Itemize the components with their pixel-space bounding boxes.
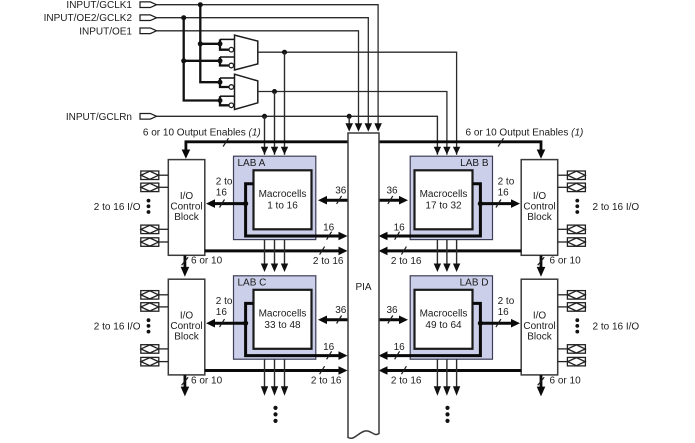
svg-text:2 to 16: 2 to 16 bbox=[391, 375, 422, 386]
mux MUX1 bbox=[235, 35, 258, 70]
arrowhead mux1 out into LAB A top bbox=[281, 147, 288, 155]
svg-text:1 to 16: 1 to 16 bbox=[267, 201, 298, 212]
slash on 36 right-bottom bbox=[388, 316, 393, 324]
svg-text:6 or 10: 6 or 10 bbox=[550, 375, 582, 386]
wire 6 or 10 arrow below top-right block bbox=[537, 255, 581, 276]
arrowhead GCLK2 into PIA top bbox=[365, 123, 373, 131]
macrocell box 49 to 64 bbox=[415, 290, 473, 349]
node mux1 out branch bbox=[282, 50, 287, 55]
slash on 2 to 16 rail right-bottom bbox=[401, 366, 406, 374]
io cell right-top 1 bbox=[558, 171, 586, 180]
slash on 16 right-top bbox=[395, 232, 400, 240]
wire LAB A to LAB C 2 bbox=[271, 240, 278, 272]
io cell left-top 2 bbox=[141, 183, 169, 192]
wire below LAB C 3 bbox=[281, 359, 288, 395]
svg-text:Block: Block bbox=[527, 332, 552, 343]
svg-text:49 to 64: 49 to 64 bbox=[425, 320, 462, 331]
PIA column bbox=[348, 133, 379, 438]
node on GCLK2 line bbox=[181, 15, 186, 20]
svg-text:Block: Block bbox=[174, 212, 199, 223]
svg-text:I/O: I/O bbox=[533, 311, 547, 322]
wire LAB D macrocell loop bbox=[387, 303, 481, 355]
node LAB D loop tap bbox=[478, 321, 483, 326]
macrocell box 33 to 48 bbox=[254, 290, 312, 349]
io cell right-bottom 1 bbox=[558, 291, 586, 300]
ellipsis left-bottom bbox=[147, 318, 151, 333]
svg-text:2 to: 2 to bbox=[216, 296, 233, 307]
wire 2 to 16 from LAB C to left I/O block bbox=[214, 322, 246, 325]
io cell right-top 3 bbox=[558, 225, 586, 234]
arrowhead GCLRn into PIA top bbox=[345, 123, 353, 131]
svg-text:16: 16 bbox=[498, 188, 510, 199]
wire 2 to 16 from LAB A to left I/O block bbox=[214, 202, 246, 205]
LAB D block bbox=[410, 276, 492, 359]
wire GCLRn drop to PIA bbox=[348, 116, 350, 124]
macrocell box 17 to 32 bbox=[415, 170, 473, 229]
svg-text:2 to 16 I/O: 2 to 16 I/O bbox=[94, 321, 141, 332]
wire GCLRn bbox=[157, 116, 438, 155]
wire mux2 out drop to LAB A bbox=[274, 92, 276, 155]
node mux1 in2 bbox=[218, 58, 223, 63]
node GCLRn to PIA bbox=[347, 114, 352, 119]
io cell right-top 2 bbox=[558, 183, 586, 192]
node mux2 in2 bbox=[218, 98, 223, 103]
wire vertical from GCLK1 feeding mux inputs bbox=[200, 5, 220, 83]
wire mux2 output bbox=[258, 92, 447, 155]
svg-text:2 to: 2 to bbox=[498, 296, 515, 307]
io cell right-bottom 2 bbox=[558, 303, 586, 312]
slash on right OE rail bbox=[498, 138, 503, 146]
wire vertical from GCLK2 feeding mux inputs bbox=[184, 18, 220, 101]
svg-text:Control: Control bbox=[170, 202, 202, 213]
ellipsis right-bottom bbox=[575, 318, 579, 333]
input pin INPUT/GCLRn bbox=[66, 112, 157, 123]
svg-text:6 or 10: 6 or 10 bbox=[191, 255, 223, 266]
arrowhead 16 into PIA left bbox=[339, 232, 348, 241]
slash on 2 to 16 right-top bbox=[496, 200, 501, 208]
I/O Control Block top-left bbox=[168, 160, 205, 256]
io cell left-top 1 bbox=[141, 171, 169, 180]
slash on 2 to 16 right-bottom bbox=[496, 319, 501, 327]
svg-text:2 to 16: 2 to 16 bbox=[313, 256, 344, 267]
io cell left-bottom 1 bbox=[141, 291, 169, 300]
svg-text:16: 16 bbox=[216, 307, 228, 318]
wire 36 from PIA to LAB C bbox=[326, 318, 348, 321]
LAB A block bbox=[234, 156, 316, 239]
node branch mux1 in1 bbox=[198, 41, 203, 46]
svg-text:Macrocells: Macrocells bbox=[420, 189, 468, 200]
node LAB C loop tap bbox=[243, 321, 248, 326]
svg-text:6 or 10 Output Enables (1): 6 or 10 Output Enables (1) bbox=[466, 127, 584, 138]
wire mux1 out drop to LAB A bbox=[284, 52, 286, 155]
bubble mux2 in1 bbox=[229, 85, 234, 90]
wire 2 to 16 from LAB D to right I/O block bbox=[480, 322, 512, 325]
slash on 2 to 16 rail left-top bbox=[320, 247, 325, 255]
wire 2 to 16 from LAB B to right I/O block bbox=[480, 202, 512, 205]
slash on 2 to 16 left-top bbox=[220, 200, 225, 208]
svg-text:16: 16 bbox=[323, 342, 335, 353]
arrowhead GCLRn into LAB B top bbox=[434, 147, 441, 155]
wire mux1 input2 true/complement split bbox=[220, 57, 229, 66]
wire LAB B to LAB D 2 bbox=[443, 240, 450, 272]
svg-text:2 to 16 I/O: 2 to 16 I/O bbox=[593, 202, 640, 213]
wire 36 from PIA to LAB D bbox=[379, 318, 400, 321]
ellipsis left-top bbox=[147, 199, 151, 214]
svg-text:Macrocells: Macrocells bbox=[259, 309, 307, 320]
io cell left-bottom 3 bbox=[141, 345, 169, 354]
wire mux1 input1 true/complement split bbox=[220, 39, 229, 49]
wire LAB C macrocell loop bbox=[246, 303, 340, 355]
svg-text:INPUT/OE2/GCLK2: INPUT/OE2/GCLK2 bbox=[44, 13, 133, 24]
arrowhead mux1 out into LAB B top bbox=[453, 147, 460, 155]
wire 2 to 16 rail left-top bbox=[205, 249, 340, 252]
wire branch to mux1 input1 bbox=[200, 43, 220, 45]
svg-text:PIA: PIA bbox=[355, 282, 371, 293]
bubble mux2 in2 bbox=[229, 103, 234, 108]
wire LAB A to LAB C 1 bbox=[261, 240, 268, 272]
slash on 36 left-top bbox=[337, 196, 342, 204]
io cell left-bottom 4 bbox=[141, 357, 169, 366]
svg-text:2 to 16 I/O: 2 to 16 I/O bbox=[94, 202, 141, 213]
svg-text:6 or 10: 6 or 10 bbox=[550, 255, 582, 266]
node branch mux1 in2 bbox=[181, 58, 186, 63]
wire LAB B to LAB D 3 bbox=[453, 240, 460, 272]
svg-text:16: 16 bbox=[216, 188, 228, 199]
wire 36 from PIA to LAB A bbox=[326, 199, 348, 202]
wire 36 from PIA to LAB B bbox=[379, 199, 400, 202]
arrowhead OE1 into PIA top bbox=[355, 123, 363, 131]
slash on 16 right-bottom bbox=[395, 351, 400, 359]
node mux2 out branch bbox=[272, 89, 277, 94]
svg-text:6 or 10 Output Enables (1): 6 or 10 Output Enables (1) bbox=[143, 127, 261, 138]
LAB C block bbox=[234, 276, 316, 359]
wire 6 or 10 arrow below top-left block bbox=[181, 255, 223, 276]
slash on 2 to 16 left-bottom bbox=[220, 319, 225, 327]
wire LAB B macrocell loop bbox=[387, 184, 481, 236]
macrocell box 1 to 16 bbox=[254, 170, 312, 229]
io cell left-top 4 bbox=[141, 238, 169, 247]
svg-text:Control: Control bbox=[170, 321, 202, 332]
svg-text:INPUT/OE1: INPUT/OE1 bbox=[79, 26, 132, 37]
arrowhead 16 into PIA right bbox=[379, 232, 388, 241]
mux MUX2 bbox=[235, 74, 258, 109]
wire GCLRn drop to LAB A bbox=[264, 116, 266, 155]
wire GCLK2 bbox=[157, 18, 369, 125]
svg-text:33 to 48: 33 to 48 bbox=[264, 320, 301, 331]
slash on 2 to 16 rail left-bottom bbox=[320, 366, 325, 374]
wire LAB A to LAB C 3 bbox=[281, 240, 288, 272]
svg-text:LAB B: LAB B bbox=[460, 158, 489, 169]
svg-text:Block: Block bbox=[527, 212, 552, 223]
svg-text:6 or 10: 6 or 10 bbox=[191, 375, 223, 386]
svg-text:LAB C: LAB C bbox=[238, 278, 267, 289]
input pin INPUT/OE2/GCLK2 bbox=[44, 13, 157, 24]
io cell right-bottom 3 bbox=[558, 345, 586, 354]
svg-text:LAB D: LAB D bbox=[460, 278, 489, 289]
svg-text:Control: Control bbox=[523, 202, 555, 213]
input pin INPUT/GCLK1 bbox=[66, 0, 156, 11]
svg-text:I/O: I/O bbox=[533, 191, 547, 202]
LAB B block bbox=[410, 156, 492, 239]
svg-text:36: 36 bbox=[335, 305, 347, 316]
node mux2 in1 bbox=[218, 80, 223, 85]
wire LAB A macrocell loop bbox=[246, 184, 340, 236]
svg-text:INPUT/GCLK1: INPUT/GCLK1 bbox=[66, 0, 132, 11]
bubble mux1 in2 bbox=[229, 63, 234, 68]
io cell left-top 3 bbox=[141, 225, 169, 234]
I/O Control Block bottom-left bbox=[168, 279, 205, 375]
wire 6 or 10 arrow below bottom-right block bbox=[537, 375, 581, 396]
ellipsis below LAB D bbox=[445, 406, 449, 423]
wire below LAB D 1 bbox=[434, 359, 441, 395]
svg-text:36: 36 bbox=[386, 186, 398, 197]
svg-text:Block: Block bbox=[174, 332, 199, 343]
svg-text:I/O: I/O bbox=[180, 191, 194, 202]
input pin INPUT/OE1 bbox=[79, 26, 156, 37]
ellipsis below LAB C bbox=[273, 406, 277, 423]
bubble mux1 in1 bbox=[229, 47, 234, 52]
wire below LAB C 2 bbox=[271, 359, 278, 395]
slash on left OE rail bbox=[223, 138, 228, 146]
svg-text:16: 16 bbox=[323, 223, 335, 234]
svg-text:2 to 16 I/O: 2 to 16 I/O bbox=[593, 321, 640, 332]
io cell right-bottom 4 bbox=[558, 357, 586, 366]
svg-text:2 to: 2 to bbox=[216, 177, 233, 188]
wire OE1 bbox=[157, 31, 359, 125]
wire below LAB C 1 bbox=[261, 359, 268, 395]
node on GCLK1 line bbox=[198, 2, 203, 7]
wire 2 to 16 rail left-bottom bbox=[205, 369, 340, 372]
slash on 36 left-bottom bbox=[337, 316, 342, 324]
wire 2 to 16 rail right-top bbox=[387, 249, 522, 252]
node LAB A loop tap bbox=[243, 201, 248, 206]
I/O Control Block top-right bbox=[521, 160, 558, 256]
arrowhead mux2 out into LAB B top bbox=[443, 147, 450, 155]
arrowhead GCLRn into LAB A top bbox=[261, 147, 268, 155]
node mux1 in1 bbox=[218, 41, 223, 46]
svg-text:16: 16 bbox=[498, 307, 510, 318]
wire 2 to 16 rail right-bottom bbox=[387, 369, 522, 372]
wire branch to mux1 input2 bbox=[184, 60, 220, 62]
slash on 2 to 16 rail right-top bbox=[401, 247, 406, 255]
slash on 16 left-top bbox=[327, 232, 332, 240]
arrowhead 16 into PIA right-bottom bbox=[379, 351, 388, 360]
svg-text:I/O: I/O bbox=[180, 311, 194, 322]
svg-text:Control: Control bbox=[523, 321, 555, 332]
node GCLRn to LAB A bbox=[262, 114, 267, 119]
svg-text:36: 36 bbox=[386, 305, 398, 316]
I/O Control Block bottom-right bbox=[521, 279, 558, 375]
wire left output-enable rail bbox=[186, 142, 348, 151]
wire mux2 input1 true/complement split bbox=[220, 78, 229, 87]
svg-text:2 to: 2 to bbox=[498, 177, 515, 188]
ellipsis right-top bbox=[575, 199, 579, 214]
svg-text:LAB A: LAB A bbox=[238, 158, 266, 169]
arrowhead GCLK1 into PIA top bbox=[374, 123, 382, 131]
wire mux1 output bbox=[258, 52, 457, 155]
slash on 36 right-top bbox=[388, 196, 393, 204]
wire below LAB D 3 bbox=[453, 359, 460, 395]
wire below LAB D 2 bbox=[443, 359, 450, 395]
wire GCLK1 bbox=[157, 5, 379, 125]
wire right output-enable rail bbox=[379, 142, 541, 151]
svg-text:2 to 16: 2 to 16 bbox=[391, 256, 422, 267]
svg-text:Macrocells: Macrocells bbox=[259, 189, 307, 200]
wire LAB B to LAB D 1 bbox=[434, 240, 441, 272]
svg-text:17 to 32: 17 to 32 bbox=[425, 201, 462, 212]
svg-text:INPUT/GCLRn: INPUT/GCLRn bbox=[66, 112, 132, 123]
io cell right-top 4 bbox=[558, 238, 586, 247]
svg-text:Macrocells: Macrocells bbox=[420, 309, 468, 320]
arrowhead mux2 out into LAB A top bbox=[271, 147, 278, 155]
io cell left-bottom 2 bbox=[141, 303, 169, 312]
arrowhead 16 into PIA left-bottom bbox=[339, 351, 348, 360]
wire mux2 input2 true/complement split bbox=[220, 96, 229, 105]
svg-text:36: 36 bbox=[335, 186, 347, 197]
slash on 16 left-bottom bbox=[327, 351, 332, 359]
wire 6 or 10 arrow below bottom-left block bbox=[181, 375, 223, 396]
node LAB B loop tap bbox=[478, 201, 483, 206]
svg-text:2 to 16: 2 to 16 bbox=[311, 375, 342, 386]
